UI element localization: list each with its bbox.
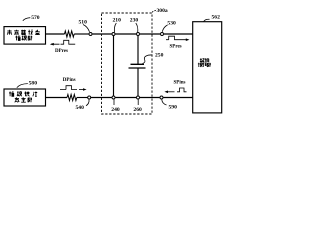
svg-text:570: 570 <box>31 15 40 21</box>
SPres pulse annotation <box>166 36 188 40</box>
capacitor 250 <box>129 64 146 68</box>
leader 540 <box>86 100 89 106</box>
svg-text:230: 230 <box>130 18 139 24</box>
resistor 510 <box>65 31 75 37</box>
wire top from box to resistor <box>46 33 65 35</box>
text line1 box U580 <box>9 92 37 97</box>
SPins arrowhead <box>164 91 168 94</box>
svg-text:300a: 300a <box>157 8 168 14</box>
SPins pulse annotation <box>166 88 186 92</box>
leader 510 <box>83 25 90 32</box>
svg-text:SPres: SPres <box>170 45 182 50</box>
node 240 terminal circle <box>112 96 115 99</box>
wire top resistor to terminal <box>74 33 89 35</box>
text line2 box U570 <box>15 36 32 41</box>
leader 250 squiggle <box>143 55 153 64</box>
wire bottom resistor to terminal <box>77 97 88 99</box>
svg-text:590: 590 <box>169 104 178 110</box>
svg-text:240: 240 <box>111 107 120 113</box>
wire bottom to right box <box>163 97 193 99</box>
leader 530 <box>162 25 167 32</box>
DPins pulse annotation <box>60 86 85 90</box>
text line2 box U580 <box>15 97 32 102</box>
text line2 box U562 <box>198 63 211 67</box>
wire top to right box <box>164 33 193 35</box>
leader 590 <box>162 100 167 106</box>
leader 240 <box>113 99 115 105</box>
svg-text:510: 510 <box>79 20 88 26</box>
svg-text:540: 540 <box>76 105 85 111</box>
DPins arrowhead <box>83 88 87 91</box>
wire top terminal into panel <box>92 33 112 35</box>
wire left electrode vertical <box>113 36 115 96</box>
svg-text:SPins: SPins <box>174 80 186 85</box>
dashed panel box 300a <box>102 13 153 114</box>
box U562 contact detection unit <box>193 22 222 113</box>
wire right electrode vertical lower <box>137 68 139 96</box>
junction circle near 540 <box>88 96 91 99</box>
leader 570 <box>23 18 31 21</box>
wire bottom between terminals <box>115 97 160 99</box>
wire top between terminals <box>115 33 160 35</box>
SPres arrowhead <box>186 38 190 41</box>
DPres pulse annotation <box>51 40 75 44</box>
leader 300a dashed <box>152 11 156 14</box>
svg-text:530: 530 <box>167 20 176 26</box>
DPres arrowhead <box>50 43 54 46</box>
wire right electrode vertical upper <box>137 36 139 64</box>
resistor 540 <box>67 95 77 101</box>
svg-text:562: 562 <box>212 15 221 21</box>
leader 580 <box>17 84 28 88</box>
leader 230 <box>136 23 138 32</box>
box U570 unmounted-state detection unit <box>4 27 46 44</box>
node 230 terminal circle <box>137 33 140 36</box>
leader 210 <box>114 23 116 32</box>
svg-text:210: 210 <box>113 18 122 24</box>
leader 260 <box>137 99 139 105</box>
wire bottom from box to resistor <box>46 97 68 99</box>
node 590 circle <box>160 96 163 99</box>
wire bottom terminal into panel <box>91 97 112 99</box>
node 260 terminal circle <box>137 96 140 99</box>
svg-text:DPres: DPres <box>55 49 68 54</box>
text line1 box U570 <box>7 30 40 35</box>
svg-text:DPins: DPins <box>63 78 76 83</box>
leader 562 <box>204 19 210 22</box>
text line1 box U562 <box>200 58 209 62</box>
node 210 terminal circle <box>112 33 115 36</box>
junction circle near 510 <box>89 33 92 36</box>
svg-text:260: 260 <box>133 107 142 113</box>
svg-text:250: 250 <box>155 53 164 59</box>
box U580 detection pulse generator <box>4 89 46 106</box>
node 530 circle <box>161 33 164 36</box>
svg-text:580: 580 <box>29 80 38 86</box>
